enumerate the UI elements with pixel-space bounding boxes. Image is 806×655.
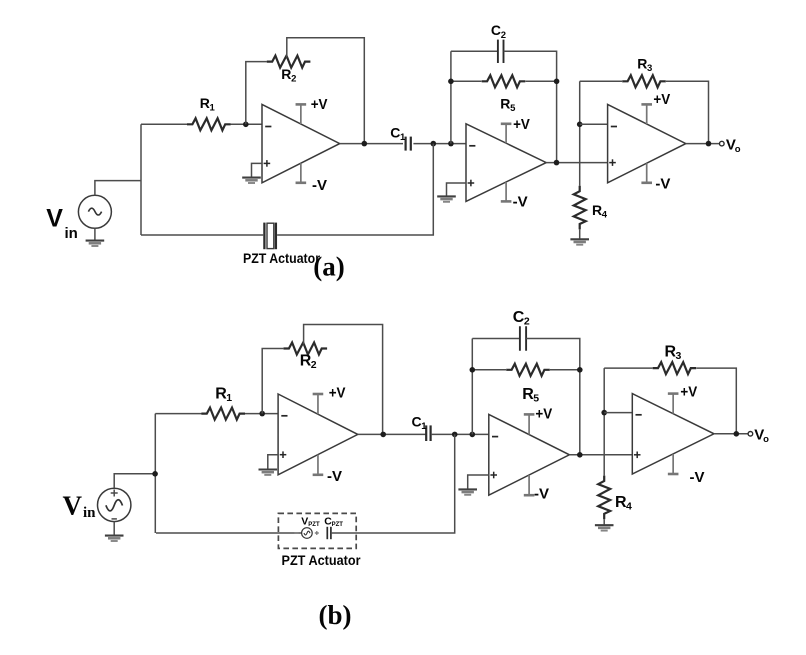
label -V of U6 (b) bbox=[690, 469, 705, 486]
label R1 (b) bbox=[215, 385, 232, 404]
label R5 (b) bbox=[522, 386, 539, 405]
svg-text:V: V bbox=[63, 491, 83, 521]
wire: R1 input segment (b) bbox=[155, 413, 201, 415]
resistor R4 (a) bbox=[574, 186, 586, 230]
svg-text:PZT: PZT bbox=[332, 522, 344, 528]
label Cpzt (b) bbox=[324, 515, 343, 528]
op-amp U2 (a) bbox=[466, 124, 546, 202]
ground below R4 (a) bbox=[570, 239, 589, 244]
label Vin (a) bbox=[46, 205, 78, 243]
wire: R2 top feedback rail (a) bbox=[287, 38, 365, 144]
wire: bottom PZT branch left (a) bbox=[141, 234, 263, 236]
wire: R1 input segment (a) bbox=[141, 123, 187, 125]
svg-text:in: in bbox=[65, 225, 78, 242]
junction: U6 inverting node (b) bbox=[601, 410, 607, 416]
caption (a) bbox=[313, 252, 344, 282]
wire: U5 output to U6 plus (b) bbox=[569, 454, 632, 456]
op-amp U5 (b) bbox=[489, 414, 570, 495]
svg-text:-V: -V bbox=[690, 469, 705, 486]
junction: R5 left (b) bbox=[470, 367, 476, 373]
resistor R1 (a) bbox=[187, 118, 231, 130]
label PZT Actuator (a) bbox=[243, 251, 321, 266]
svg-text:-V: -V bbox=[312, 177, 327, 194]
svg-text:-V: -V bbox=[327, 468, 342, 485]
wire: feedback left vertical (a) bbox=[450, 51, 452, 143]
svg-text:PZT Actuator: PZT Actuator bbox=[243, 251, 321, 266]
svg-text:C: C bbox=[412, 413, 422, 429]
svg-text:-V: -V bbox=[655, 176, 670, 193]
label R1 bbox=[200, 95, 216, 114]
wire: U1 plus to ground (a) bbox=[252, 163, 263, 177]
junction: U2 output node (a) bbox=[554, 160, 560, 166]
svg-text:PZT Actuator: PZT Actuator bbox=[282, 553, 362, 568]
resistor R4 (b) bbox=[598, 476, 610, 520]
wire: R3 rail left segment (b) bbox=[604, 367, 652, 369]
label R4 (b) bbox=[615, 494, 632, 513]
label PZT Actuator (b) bbox=[282, 553, 362, 568]
PZT source Vpzt (b) bbox=[294, 528, 318, 539]
junction: output node (a) bbox=[706, 141, 712, 147]
wire: C1 to U2 minus (a) bbox=[413, 143, 466, 145]
ground at U1 plus input (a) bbox=[242, 178, 261, 183]
wire: C2 top rail left (b) bbox=[472, 338, 520, 340]
svg-text:(b): (b) bbox=[319, 600, 352, 630]
capacitor C1 (a) bbox=[406, 137, 411, 151]
wire: R3 rail right segment (b) bbox=[696, 368, 736, 434]
junction: U3 inverting node (a) bbox=[577, 122, 583, 128]
svg-text:(a): (a) bbox=[313, 252, 344, 282]
label Vo (b) bbox=[754, 426, 769, 445]
resistor R3 (a) bbox=[622, 75, 666, 87]
svg-text:R: R bbox=[500, 95, 510, 111]
wire: feedback left vertical (b) bbox=[471, 339, 473, 435]
label Vo (a) bbox=[726, 136, 741, 155]
label +V of U1 (a) bbox=[311, 96, 328, 113]
capacitor C2 (a) bbox=[498, 40, 504, 63]
wire: bottom PZT branch right (a) bbox=[277, 144, 433, 235]
resistor R2 (b) bbox=[284, 343, 328, 355]
op-amp U6 (b) bbox=[632, 394, 714, 474]
wire: U6 output (b) bbox=[714, 433, 748, 435]
label R2 bbox=[281, 66, 296, 85]
wire: node to U3 minus (a) bbox=[580, 123, 608, 125]
svg-text:3: 3 bbox=[647, 63, 652, 74]
wire: Vin top to left rail (a) bbox=[95, 181, 141, 196]
wire: U2 output to U3 plus (a) bbox=[546, 162, 607, 164]
caption (b) bbox=[319, 600, 352, 630]
dashed PZT actuator box (b) bbox=[278, 513, 356, 548]
label -V of U4 (b) bbox=[327, 468, 342, 485]
label C1 (b) bbox=[412, 413, 428, 432]
wire: R5 rail left (a) bbox=[451, 80, 482, 82]
wire: C1 to U5 minus (b) bbox=[431, 433, 489, 435]
wire: R1 to op-amp U4 minus (b) bbox=[245, 413, 278, 415]
svg-text:5: 5 bbox=[510, 103, 516, 114]
junction: U1 inverting node (a) bbox=[243, 122, 249, 128]
junction: R5 right (a) bbox=[554, 79, 560, 85]
svg-text:V: V bbox=[301, 515, 308, 527]
ground at U4 plus input (b) bbox=[259, 470, 278, 475]
wire: R2 top feedback rail (b) bbox=[304, 325, 383, 435]
capacitor Cpzt (b) bbox=[327, 527, 331, 539]
op-amp U3 (a) bbox=[608, 104, 686, 182]
label C2 (b) bbox=[513, 309, 530, 328]
junction: U1 output node (a) bbox=[362, 141, 368, 147]
svg-text:in: in bbox=[83, 505, 96, 521]
voltage source Vin (a) bbox=[78, 195, 111, 228]
label +V of U4 (b) bbox=[329, 384, 346, 401]
ground below Vin (b) bbox=[105, 522, 124, 541]
svg-text:PZT: PZT bbox=[308, 522, 320, 528]
ground below R4 (b) bbox=[595, 525, 614, 530]
wire: C2 top rail right (b) bbox=[526, 339, 580, 455]
junction: U5 output node (b) bbox=[577, 452, 583, 458]
svg-text:R: R bbox=[281, 66, 291, 82]
resistor R5 (a) bbox=[482, 75, 526, 87]
wire: U5 plus to ground (b) bbox=[468, 475, 489, 489]
label -V of U2 (a) bbox=[513, 193, 528, 210]
wire: R5 rail right (b) bbox=[550, 369, 580, 371]
svg-text:V: V bbox=[46, 205, 63, 233]
svg-text:R: R bbox=[637, 55, 647, 71]
wire: R3 left vertical to R4 (b) bbox=[603, 368, 605, 476]
label +V of U2 (a) bbox=[513, 116, 530, 133]
svg-text:C: C bbox=[513, 309, 525, 326]
svg-text:o: o bbox=[763, 434, 769, 445]
wire: R5 rail left (b) bbox=[472, 369, 506, 371]
wire: U1 output to C1 (a) bbox=[340, 143, 403, 145]
svg-text:+V: +V bbox=[329, 384, 346, 401]
label C1 (a) bbox=[390, 125, 406, 144]
resistor R2 (a) bbox=[267, 56, 311, 68]
svg-text:o: o bbox=[735, 144, 741, 155]
svg-text:2: 2 bbox=[311, 359, 317, 371]
wire: node to U6 minus (b) bbox=[604, 412, 632, 414]
wire: C2 top rail left (a) bbox=[451, 50, 498, 52]
wire: C2 top rail right (a) bbox=[504, 51, 557, 162]
wire: U4 plus to ground (b) bbox=[268, 455, 278, 470]
voltage source Vin (b) bbox=[98, 488, 131, 521]
ground below Vin (a) bbox=[86, 228, 105, 246]
svg-text:-V: -V bbox=[534, 485, 549, 502]
label -V of U3 (a) bbox=[655, 176, 670, 193]
svg-text:R: R bbox=[200, 95, 210, 111]
label C2 (a) bbox=[491, 22, 506, 41]
wire: R4 to ground (b) bbox=[603, 519, 605, 525]
junction: C1 output / PZT return node (a) bbox=[431, 141, 437, 147]
svg-text:+V: +V bbox=[680, 383, 697, 400]
label R4 (a) bbox=[592, 202, 608, 221]
junction: U2 inverting node (a) bbox=[448, 141, 454, 147]
svg-text:4: 4 bbox=[602, 209, 608, 220]
label Vin (b) bbox=[63, 491, 97, 522]
ground at U2 plus input (a) bbox=[437, 196, 456, 201]
label R3 (a) bbox=[637, 55, 652, 74]
wire: R3 rail left segment (a) bbox=[580, 80, 622, 82]
svg-text:2: 2 bbox=[501, 30, 506, 41]
wire: U2 plus to ground (a) bbox=[447, 183, 467, 196]
ground at U5 plus input (b) bbox=[458, 489, 477, 494]
label R3 (b) bbox=[665, 344, 682, 363]
wire: R4 to ground (a) bbox=[579, 229, 581, 239]
wire: left vertical rail (b) bbox=[154, 414, 156, 533]
wire: left vertical rail (a) bbox=[140, 124, 142, 235]
svg-text:+V: +V bbox=[513, 116, 530, 133]
label +V of U6 (b) bbox=[680, 383, 697, 400]
svg-text:3: 3 bbox=[676, 350, 682, 362]
terminal Vo (b) bbox=[748, 432, 753, 437]
label -V of U1 (a) bbox=[312, 177, 327, 194]
junction: Vin tap node (b) bbox=[152, 471, 158, 477]
label Vpzt (b) bbox=[301, 515, 320, 528]
junction: R5 left (a) bbox=[448, 79, 454, 85]
svg-text:+V: +V bbox=[653, 91, 670, 108]
svg-text:4: 4 bbox=[626, 501, 632, 513]
svg-text:2: 2 bbox=[524, 316, 530, 328]
resistor R3 (b) bbox=[653, 362, 697, 374]
wire: Vin top to left rail (b) bbox=[114, 474, 155, 488]
wire: node to R2 (a) bbox=[246, 62, 267, 125]
label +V of U5 (b) bbox=[535, 405, 552, 422]
junction: U4 output node (b) bbox=[380, 432, 386, 438]
wire: R5 rail right (a) bbox=[526, 80, 557, 82]
wire: U3 output (a) bbox=[686, 143, 720, 145]
svg-text:-V: -V bbox=[513, 193, 528, 210]
svg-text:C: C bbox=[491, 22, 501, 38]
label -V of U5 (b) bbox=[534, 485, 549, 502]
svg-text:+V: +V bbox=[535, 405, 552, 422]
capacitor C2 (b) bbox=[520, 326, 526, 351]
svg-text:1: 1 bbox=[421, 421, 427, 432]
svg-text:C: C bbox=[390, 125, 400, 141]
junction: U5 inverting node (b) bbox=[470, 432, 476, 438]
svg-text:2: 2 bbox=[291, 73, 296, 84]
wire: node to R2 (b) bbox=[262, 349, 283, 414]
junction: C1 output / PZT return node (b) bbox=[452, 432, 458, 438]
junction: output node (b) bbox=[734, 431, 740, 437]
capacitor C1 (b) bbox=[426, 425, 430, 441]
label R2 (b) bbox=[300, 352, 317, 371]
op-amp U4 (b) bbox=[278, 394, 358, 475]
op-amp U1 (a) bbox=[262, 104, 340, 182]
resistor R5 (b) bbox=[506, 364, 550, 376]
wire: R1 to op-amp U1 minus (a) bbox=[231, 123, 263, 125]
junction: R5 right (b) bbox=[577, 367, 583, 373]
svg-text:1: 1 bbox=[400, 132, 406, 143]
junction: U4 inverting node (b) bbox=[259, 411, 265, 417]
svg-text:5: 5 bbox=[533, 393, 539, 405]
terminal Vo (a) bbox=[720, 141, 725, 146]
wire: R3 left vertical to R4 (a) bbox=[579, 81, 581, 186]
wire: bottom PZT branch left (b) bbox=[156, 532, 302, 534]
wire: R3 rail right segment (a) bbox=[666, 81, 709, 143]
label R5 (a) bbox=[500, 95, 516, 114]
svg-text:1: 1 bbox=[210, 102, 216, 113]
resistor R1 (b) bbox=[201, 408, 245, 420]
wire: U4 output to C1 (b) bbox=[358, 433, 426, 435]
wire: bottom PZT branch right (b) bbox=[331, 434, 455, 533]
label +V of U3 (a) bbox=[653, 91, 670, 108]
svg-text:R: R bbox=[592, 202, 602, 218]
PZT actuator symbol (a) bbox=[264, 223, 276, 250]
svg-text:+V: +V bbox=[311, 96, 328, 113]
svg-text:1: 1 bbox=[226, 392, 232, 404]
